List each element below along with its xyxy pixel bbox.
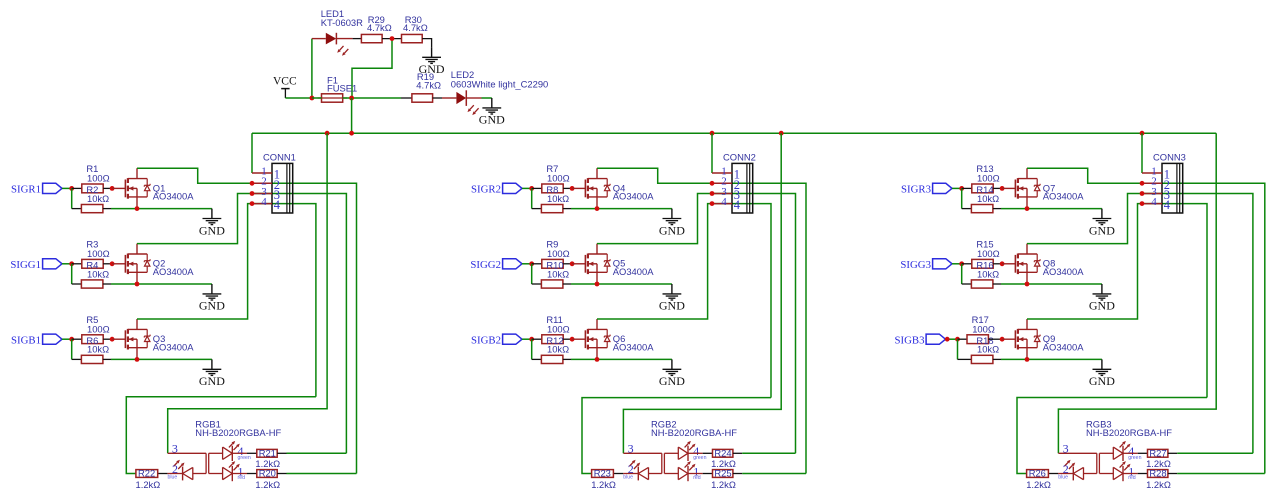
- R30 labels: [403, 14, 428, 33]
- resistor R12 10k: [541, 355, 563, 363]
- pin 3 numbers: [1151, 186, 1170, 202]
- ground for Q2: [199, 284, 225, 313]
- svg-text:NH-B2020RGBA-HF: NH-B2020RGBA-HF: [195, 427, 281, 438]
- pin 3 numbers: [721, 186, 740, 202]
- wire junction to R1: [72, 187, 82, 189]
- resistor R8 10k: [541, 205, 563, 213]
- wire rail to RGB3 common anode: [1058, 133, 1216, 453]
- wire gate node to gate: [1002, 338, 1015, 340]
- LED1 labels: [321, 8, 363, 28]
- wire junction to R13: [962, 187, 972, 189]
- svg-text:red: red: [693, 475, 701, 481]
- svg-text:GND: GND: [1089, 299, 1115, 313]
- svg-text:SIGR3: SIGR3: [901, 184, 931, 196]
- node source junction: [1025, 206, 1030, 211]
- svg-text:AO3400A: AO3400A: [613, 266, 654, 277]
- svg-text:10kΩ: 10kΩ: [547, 193, 569, 204]
- svg-text:AO3400A: AO3400A: [613, 191, 654, 202]
- wire R13 to gate node: [993, 187, 1002, 189]
- svg-text:3: 3: [172, 441, 178, 455]
- wire SIGR2 to junction: [522, 187, 532, 189]
- RGB3 internal common bus: [1058, 453, 1113, 473]
- svg-text:SIGG3: SIGG3: [900, 259, 931, 271]
- svg-text:SIGB1: SIGB1: [11, 334, 41, 346]
- R9/R10 labels: [546, 239, 569, 280]
- node rail junctions: [325, 131, 1145, 136]
- wire gate node to gate: [572, 187, 585, 189]
- node SIGB2 input junction: [529, 337, 534, 342]
- pin 4 label and green text: [1128, 444, 1141, 461]
- resistor R18 10k: [971, 355, 993, 363]
- wire R27 to CONN3 pin3 net: [1168, 452, 1253, 454]
- LED red die RGB2: [678, 466, 688, 481]
- svg-text:4.7kΩ: 4.7kΩ: [367, 22, 392, 33]
- node SIGR1 input junction: [69, 186, 74, 191]
- svg-text:1.2kΩ: 1.2kΩ: [1026, 479, 1051, 490]
- transistor Q3 AO3400A: [125, 319, 150, 359]
- resistor R23 1.2k: [592, 470, 614, 478]
- wire R30 to GND: [422, 39, 431, 48]
- node pin 4 junction: [710, 201, 715, 206]
- svg-text:FUSE1: FUSE1: [327, 83, 357, 94]
- wire VCC to LED1 node: [285, 97, 312, 99]
- wire source rail to GND: [571, 208, 672, 210]
- svg-text:10kΩ: 10kΩ: [87, 268, 109, 279]
- wire green die to R27: [1123, 452, 1148, 454]
- wire R15 to gate node: [993, 263, 1002, 265]
- wire source rail to GND: [111, 208, 212, 210]
- wire R1 to gate node: [103, 187, 112, 189]
- connector CONN3 body: [1162, 163, 1183, 213]
- Q5 labels: [613, 258, 654, 277]
- svg-text:GND: GND: [659, 299, 685, 313]
- pin 1 stub CONN2: [712, 172, 732, 174]
- svg-text:R24: R24: [714, 447, 731, 458]
- wire junction to R9: [532, 263, 542, 265]
- Q7 labels: [1043, 182, 1084, 201]
- node pin 4 junction: [1140, 201, 1145, 206]
- node R29-R30 junction: [390, 36, 395, 41]
- R28 labels: [1146, 468, 1171, 490]
- net label flag SIGR3: [901, 183, 952, 195]
- wire R17 to gate node: [988, 338, 1002, 340]
- R3/R4 labels: [86, 239, 109, 280]
- resistor R4 10k: [81, 280, 103, 288]
- node gate junction: [1000, 186, 1005, 191]
- svg-text:SIGB3: SIGB3: [895, 334, 925, 346]
- svg-text:CONN1: CONN1: [263, 152, 296, 163]
- resistor R15 100ohm: [972, 259, 993, 268]
- wire blue die to R26: [1048, 473, 1073, 475]
- wire R11 to gate node: [563, 338, 572, 340]
- fuse F1: [318, 94, 348, 102]
- wire gate node to gate: [112, 338, 125, 340]
- svg-text:GND: GND: [479, 113, 505, 127]
- LED green die RGB3: [1113, 446, 1123, 461]
- resistor R1 100ohm: [82, 184, 103, 193]
- wire gate node to gate: [572, 263, 585, 265]
- pin 3 numbers: [261, 186, 280, 202]
- wire gate node to gate: [1002, 187, 1015, 189]
- svg-text:CONN3: CONN3: [1153, 152, 1186, 163]
- ground for LED2: [479, 98, 505, 127]
- pin 1 label and red text: [1128, 464, 1136, 481]
- svg-text:CONN2: CONN2: [723, 152, 756, 163]
- LED green die RGB1: [223, 446, 233, 461]
- pin 4 label and green text: [693, 444, 706, 461]
- node gate junction: [570, 337, 575, 342]
- RGB1 internal common bus: [168, 453, 223, 473]
- transistor Q6 AO3400A: [585, 319, 610, 359]
- node pin 2 junction: [250, 181, 255, 186]
- svg-text:1.2kΩ: 1.2kΩ: [711, 479, 736, 490]
- transistor Q2 AO3400A: [125, 244, 150, 284]
- pin 1 label and red text: [693, 464, 701, 481]
- wire R29-R30 node to fuse output: [352, 39, 392, 98]
- node extra junction SIGB3: [945, 337, 950, 342]
- wire R12 right: [563, 358, 571, 360]
- wire stub R12 left: [532, 358, 542, 360]
- svg-text:AO3400A: AO3400A: [153, 341, 194, 352]
- resistor R7 100ohm: [542, 184, 563, 193]
- wire stub R18 left: [958, 358, 972, 360]
- resistor R24 1.2k: [713, 449, 733, 457]
- wire stub R2 left: [72, 208, 82, 210]
- wire fuse to R19: [343, 97, 401, 99]
- svg-text:10kΩ: 10kΩ: [87, 193, 109, 204]
- node source junction: [1025, 282, 1030, 287]
- node source junction: [135, 357, 140, 362]
- pin 2 stub CONN1: [252, 182, 272, 184]
- LED red die RGB3: [1113, 466, 1123, 481]
- svg-text:AO3400A: AO3400A: [1043, 191, 1084, 202]
- svg-text:red: red: [238, 475, 246, 481]
- net label flag SIGB3: [895, 334, 946, 346]
- svg-text:GND: GND: [199, 223, 225, 237]
- LED blue die RGB2: [638, 467, 648, 481]
- resistor R19 4.7k: [412, 94, 433, 102]
- wire LED1 anode drop: [311, 39, 313, 98]
- node gate junction: [1000, 261, 1005, 266]
- resistor R10 10k: [541, 280, 563, 288]
- wire R10 right: [563, 283, 571, 285]
- svg-text:SIGB2: SIGB2: [471, 334, 501, 346]
- resistor R21 1.2k: [257, 449, 277, 457]
- wire SIGB2 to junction: [522, 338, 532, 340]
- R13/R14 labels: [976, 163, 999, 204]
- wire source rail to GND: [571, 358, 672, 360]
- svg-text:R27: R27: [1149, 447, 1166, 458]
- R15/R16 labels: [976, 239, 999, 280]
- node SIGB1 input junction: [69, 337, 74, 342]
- wire source rail to GND: [1001, 358, 1102, 360]
- wire Q8 drain to CONN3 pin3: [1027, 194, 1253, 454]
- resistor R26 1.2k: [1027, 470, 1049, 478]
- svg-text:10kΩ: 10kΩ: [87, 344, 109, 355]
- wire junction to R7: [532, 187, 542, 189]
- wire junction to R11: [532, 338, 542, 340]
- wire junction down to R8: [531, 188, 533, 208]
- wire junction down to R2: [71, 188, 73, 208]
- wire Q2 drain to CONN1 pin3: [137, 194, 346, 454]
- Q2 labels: [153, 258, 194, 277]
- wire junction down to R10: [531, 264, 533, 284]
- R17/R18 labels: [972, 314, 1000, 355]
- wire stub R19 left: [401, 97, 412, 99]
- green die arrows: [685, 441, 696, 450]
- svg-text:4: 4: [1151, 196, 1157, 208]
- svg-text:AO3400A: AO3400A: [613, 341, 654, 352]
- svg-text:GND: GND: [659, 223, 685, 237]
- blue die arrows: [174, 460, 185, 469]
- svg-text:4: 4: [1164, 198, 1171, 212]
- wire stub R6 left: [72, 358, 82, 360]
- wire blue die to R22: [158, 473, 183, 475]
- svg-text:1.2kΩ: 1.2kΩ: [136, 479, 161, 490]
- LED blue die RGB1: [183, 467, 193, 481]
- node gate junction: [110, 337, 115, 342]
- LED D2 (LED2 white): [442, 90, 482, 115]
- svg-text:green: green: [1128, 455, 1141, 461]
- node source junction: [595, 282, 600, 287]
- RGB2 internal common bus: [623, 453, 678, 473]
- svg-text:KT-0603R: KT-0603R: [321, 17, 363, 28]
- wire R6 right: [103, 358, 111, 360]
- node SIGR3 input junction: [959, 186, 964, 191]
- svg-text:R20: R20: [259, 468, 276, 479]
- svg-text:blue: blue: [168, 475, 178, 481]
- pin 4 stub CONN1: [252, 203, 272, 205]
- resistor R20 1.2k: [257, 470, 277, 478]
- svg-text:4.7kΩ: 4.7kΩ: [403, 22, 428, 33]
- pin 4 stub CONN2: [712, 203, 732, 205]
- svg-text:1.2kΩ: 1.2kΩ: [255, 479, 280, 490]
- R1/R2 labels: [86, 163, 109, 204]
- node source junction: [135, 206, 140, 211]
- node pin 3 junction: [710, 191, 715, 196]
- wire R14 right: [993, 208, 1001, 210]
- pin 1 label and red text: [238, 464, 246, 481]
- pin 4 stub CONN3: [1142, 203, 1162, 205]
- wire junction down to R18: [957, 339, 959, 359]
- svg-text:GND: GND: [1089, 374, 1115, 388]
- svg-text:10kΩ: 10kΩ: [547, 344, 569, 355]
- ground for Q9: [1089, 359, 1115, 388]
- svg-text:10kΩ: 10kΩ: [977, 344, 999, 355]
- LED2 labels: [451, 69, 548, 89]
- green die arrows: [229, 441, 240, 450]
- red die arrows: [1120, 461, 1131, 470]
- ground for Q3: [199, 359, 225, 388]
- wire red die to R20: [232, 473, 256, 475]
- wire R8 right: [563, 208, 571, 210]
- wire SIGB3 to junction: [946, 338, 958, 340]
- pin 2 numbers: [721, 176, 740, 192]
- wire R25 to CONN2 pin2 net: [733, 473, 806, 475]
- wire source rail to GND: [111, 283, 212, 285]
- R25 labels: [711, 468, 736, 490]
- Q9 labels: [1043, 333, 1084, 352]
- resistor R9 100ohm: [542, 259, 563, 268]
- svg-text:SIGR2: SIGR2: [471, 184, 501, 196]
- pin 1 stub CONN3: [1142, 172, 1162, 174]
- wire source rail to GND: [571, 283, 672, 285]
- svg-text:4: 4: [721, 196, 727, 208]
- node pin 3 junction: [1140, 191, 1145, 196]
- svg-text:red: red: [1128, 475, 1136, 481]
- wire junction to R5: [72, 338, 82, 340]
- svg-text:3: 3: [628, 441, 634, 455]
- svg-text:R22: R22: [138, 468, 155, 479]
- svg-text:100Ω: 100Ω: [87, 248, 110, 259]
- resistor R29 4.7k: [361, 34, 382, 42]
- pin 4 numbers: [261, 196, 281, 212]
- R27 labels: [1146, 447, 1171, 469]
- pin 4 label and green text: [238, 444, 251, 461]
- resistor R17 100ohm: [967, 335, 988, 344]
- wire junction down to R6: [71, 339, 73, 359]
- net label flag SIGG3: [900, 259, 952, 271]
- transistor Q5 AO3400A: [585, 244, 610, 284]
- svg-text:10kΩ: 10kΩ: [977, 268, 999, 279]
- wire rail to CONN3 pin1: [1141, 133, 1143, 173]
- wire gate node to gate: [572, 338, 585, 340]
- wire rail to RGB1 common anode: [168, 133, 327, 453]
- wire green die to R21: [232, 452, 256, 454]
- node SIGR2 input junction: [529, 186, 534, 191]
- svg-text:blue: blue: [623, 475, 633, 481]
- wire stub R4 left: [72, 283, 82, 285]
- net label flag SIGB1: [11, 334, 62, 346]
- svg-text:AO3400A: AO3400A: [1043, 266, 1084, 277]
- wire Q1 drain to CONN1 pin2: [137, 168, 357, 473]
- wire Q3 drain to CONN1 pin4: [137, 204, 316, 397]
- resistor R27 1.2k: [1148, 449, 1168, 457]
- node gate junction: [1000, 337, 1005, 342]
- wire R24 to CONN2 pin3 net: [733, 452, 796, 454]
- wire gate node to gate: [112, 187, 125, 189]
- node SIGB3 input junction: [955, 337, 960, 342]
- svg-text:3: 3: [1063, 441, 1069, 455]
- R22 labels: [136, 468, 161, 490]
- resistor R30 4.7k: [402, 34, 423, 42]
- svg-text:GND: GND: [1089, 223, 1115, 237]
- resistor R11 100ohm: [542, 335, 563, 344]
- wire Q6 drain to CONN2 pin4: [597, 204, 771, 398]
- svg-text:4: 4: [734, 198, 741, 212]
- wire source rail to GND: [111, 358, 212, 360]
- Q6 labels: [613, 333, 654, 352]
- power flag VCC: [273, 76, 297, 99]
- R29 labels: [367, 14, 392, 33]
- wire CONN1 pin4 net to blue resistor: [126, 397, 316, 474]
- svg-text:100Ω: 100Ω: [547, 323, 570, 334]
- wire R5 to gate node: [103, 338, 112, 340]
- pin 2 numbers: [1151, 176, 1170, 192]
- R23 labels: [591, 468, 616, 490]
- wire blue die to R23: [613, 473, 638, 475]
- svg-text:GND: GND: [199, 299, 225, 313]
- pin 2 label and blue text: [1058, 462, 1069, 480]
- node VCC-LED1 junction: [310, 96, 315, 101]
- resistor R14 10k: [971, 205, 993, 213]
- RGB2 labels: [651, 419, 737, 439]
- transistor Q1 AO3400A: [125, 168, 150, 208]
- node pin 4 junction: [250, 201, 255, 206]
- transistor Q4 AO3400A: [585, 168, 610, 208]
- wire R16 right: [993, 283, 1001, 285]
- resistor R13 100ohm: [972, 184, 993, 193]
- svg-text:100Ω: 100Ω: [87, 323, 110, 334]
- LED D1 (LED1 KT-0603R): [312, 33, 353, 56]
- R19 labels: [416, 71, 441, 91]
- wire junction down to R12: [531, 339, 533, 359]
- resistor R28 1.2k: [1148, 470, 1168, 478]
- wire gate node to gate: [1002, 263, 1015, 265]
- wire R9 to gate node: [563, 263, 572, 265]
- svg-text:GND: GND: [659, 374, 685, 388]
- ground for Q1: [199, 209, 225, 238]
- node gate junction: [110, 186, 115, 191]
- svg-text:100Ω: 100Ω: [977, 173, 1000, 184]
- wire R2 right: [103, 208, 111, 210]
- wire SIGG3 to junction: [952, 263, 962, 265]
- wire R18 right: [993, 358, 1001, 360]
- pin 1 numbers: [721, 165, 740, 181]
- svg-text:1.2kΩ: 1.2kΩ: [591, 479, 616, 490]
- svg-text:4: 4: [261, 196, 267, 208]
- blue die arrows: [629, 460, 640, 469]
- Q3 labels: [153, 333, 194, 352]
- svg-text:SIGG1: SIGG1: [10, 259, 41, 271]
- svg-text:blue: blue: [1058, 475, 1068, 481]
- node SIGG3 input junction: [959, 261, 964, 266]
- svg-text:AO3400A: AO3400A: [1043, 341, 1084, 352]
- wire R29 to R30: [382, 38, 401, 40]
- transistor Q9 AO3400A: [1015, 319, 1040, 359]
- RGB1 labels: [195, 419, 281, 439]
- wire SIGR1 to junction: [62, 187, 72, 189]
- wire Q4 drain to CONN2 pin2: [597, 168, 806, 473]
- R20 labels: [255, 468, 280, 490]
- pin 1 numbers: [1151, 165, 1170, 181]
- Q8 labels: [1043, 258, 1084, 277]
- svg-text:NH-B2020RGBA-HF: NH-B2020RGBA-HF: [651, 427, 737, 438]
- wire gate node to gate: [112, 263, 125, 265]
- transistor Q7 AO3400A: [1015, 168, 1040, 208]
- svg-text:100Ω: 100Ω: [972, 323, 995, 334]
- wire junction to R17: [958, 338, 968, 340]
- wire Q9 drain to CONN3 pin4: [1027, 204, 1207, 398]
- ground for Q7: [1089, 209, 1115, 238]
- R11/R12 labels: [546, 314, 569, 355]
- svg-text:100Ω: 100Ω: [547, 248, 570, 259]
- svg-text:GND: GND: [199, 374, 225, 388]
- R5/R6 labels: [86, 314, 109, 355]
- R21 labels: [255, 447, 280, 469]
- green die arrows: [1120, 441, 1131, 450]
- net label flag SIGR1: [11, 183, 62, 195]
- pin 1 stub CONN1: [252, 172, 272, 174]
- wire red die to R28: [1123, 473, 1148, 475]
- R26 labels: [1026, 468, 1051, 490]
- wire VCC node to fuse: [312, 97, 322, 99]
- wire R19 to LED2: [433, 97, 442, 99]
- wire junction to R3: [72, 263, 82, 265]
- red die arrows: [229, 461, 240, 470]
- resistor R2 10k: [81, 205, 103, 213]
- blue die arrows: [1064, 460, 1075, 469]
